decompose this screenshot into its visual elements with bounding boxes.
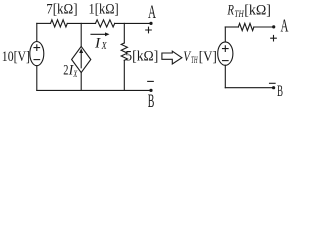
- svg-text:B: B: [148, 91, 155, 112]
- resistor R1 7k zigzag: [51, 20, 68, 27]
- source Vth plus sign: [223, 46, 229, 52]
- svg-text:10[V]: 10[V]: [2, 49, 30, 65]
- svg-text:[V]: [V]: [199, 49, 217, 65]
- wire 5k branch lower: [123, 60, 125, 90]
- wire 5k branch upper: [123, 23, 125, 43]
- implication arrow outline: [162, 51, 182, 64]
- svg-text:[kΩ]: [kΩ]: [244, 3, 271, 19]
- svg-text:A: A: [148, 2, 156, 23]
- dependent source 2Ix arrow shaft: [80, 51, 82, 68]
- svg-text:5[kΩ]: 5[kΩ]: [125, 49, 158, 65]
- wire bottom horizontal: [37, 89, 151, 91]
- wire top middle horizontal: [67, 22, 95, 24]
- wire middle branch lower: [80, 73, 82, 91]
- wire top right horizontal: [115, 22, 151, 24]
- source V1 minus sign: [34, 59, 40, 61]
- node A right dot: [272, 25, 275, 28]
- current Ix arrowhead: [105, 32, 110, 36]
- svg-text:R: R: [227, 3, 234, 19]
- svg-text:1[kΩ]: 1[kΩ]: [89, 1, 119, 17]
- resistor Rth zigzag: [238, 23, 254, 30]
- source V1 plus sign: [34, 45, 40, 51]
- svg-text:TH: TH: [234, 9, 244, 19]
- svg-text:7[kΩ]: 7[kΩ]: [46, 1, 77, 17]
- terminal plus A right: [271, 35, 277, 41]
- node B right dot: [272, 86, 275, 89]
- dependent source 2Ix diamond: [72, 46, 91, 72]
- source V1 10V ellipse: [30, 42, 44, 66]
- svg-text:X: X: [73, 70, 78, 80]
- node B left dot: [149, 89, 152, 92]
- wire right circuit left branch upper: [224, 27, 226, 42]
- wire right circuit top right: [254, 26, 274, 28]
- svg-text:TH: TH: [191, 55, 198, 65]
- wire middle branch upper: [80, 23, 82, 46]
- dependent source arrowhead up: [79, 48, 83, 53]
- source Vth minus sign: [223, 60, 229, 62]
- wire top left horizontal: [37, 22, 51, 24]
- resistor R3 5k zigzag vertical: [121, 43, 127, 60]
- wire right circuit top left: [225, 26, 238, 28]
- resistor R2 1k zigzag: [96, 20, 115, 27]
- current Ix arrow shaft: [91, 33, 108, 35]
- terminal minus B right: [270, 82, 276, 84]
- svg-text:X: X: [101, 41, 108, 52]
- terminal minus B left: [148, 80, 154, 82]
- wire left branch upper: [36, 23, 38, 41]
- svg-text:A: A: [281, 16, 289, 36]
- svg-text:I: I: [94, 35, 101, 51]
- svg-text:B: B: [277, 83, 283, 100]
- source Vth ellipse: [218, 42, 233, 65]
- node A left dot: [149, 22, 152, 25]
- wire left branch lower: [36, 66, 38, 91]
- wire right circuit left branch lower: [224, 65, 226, 87]
- wire right circuit bottom: [225, 87, 273, 89]
- terminal plus A left: [146, 27, 152, 33]
